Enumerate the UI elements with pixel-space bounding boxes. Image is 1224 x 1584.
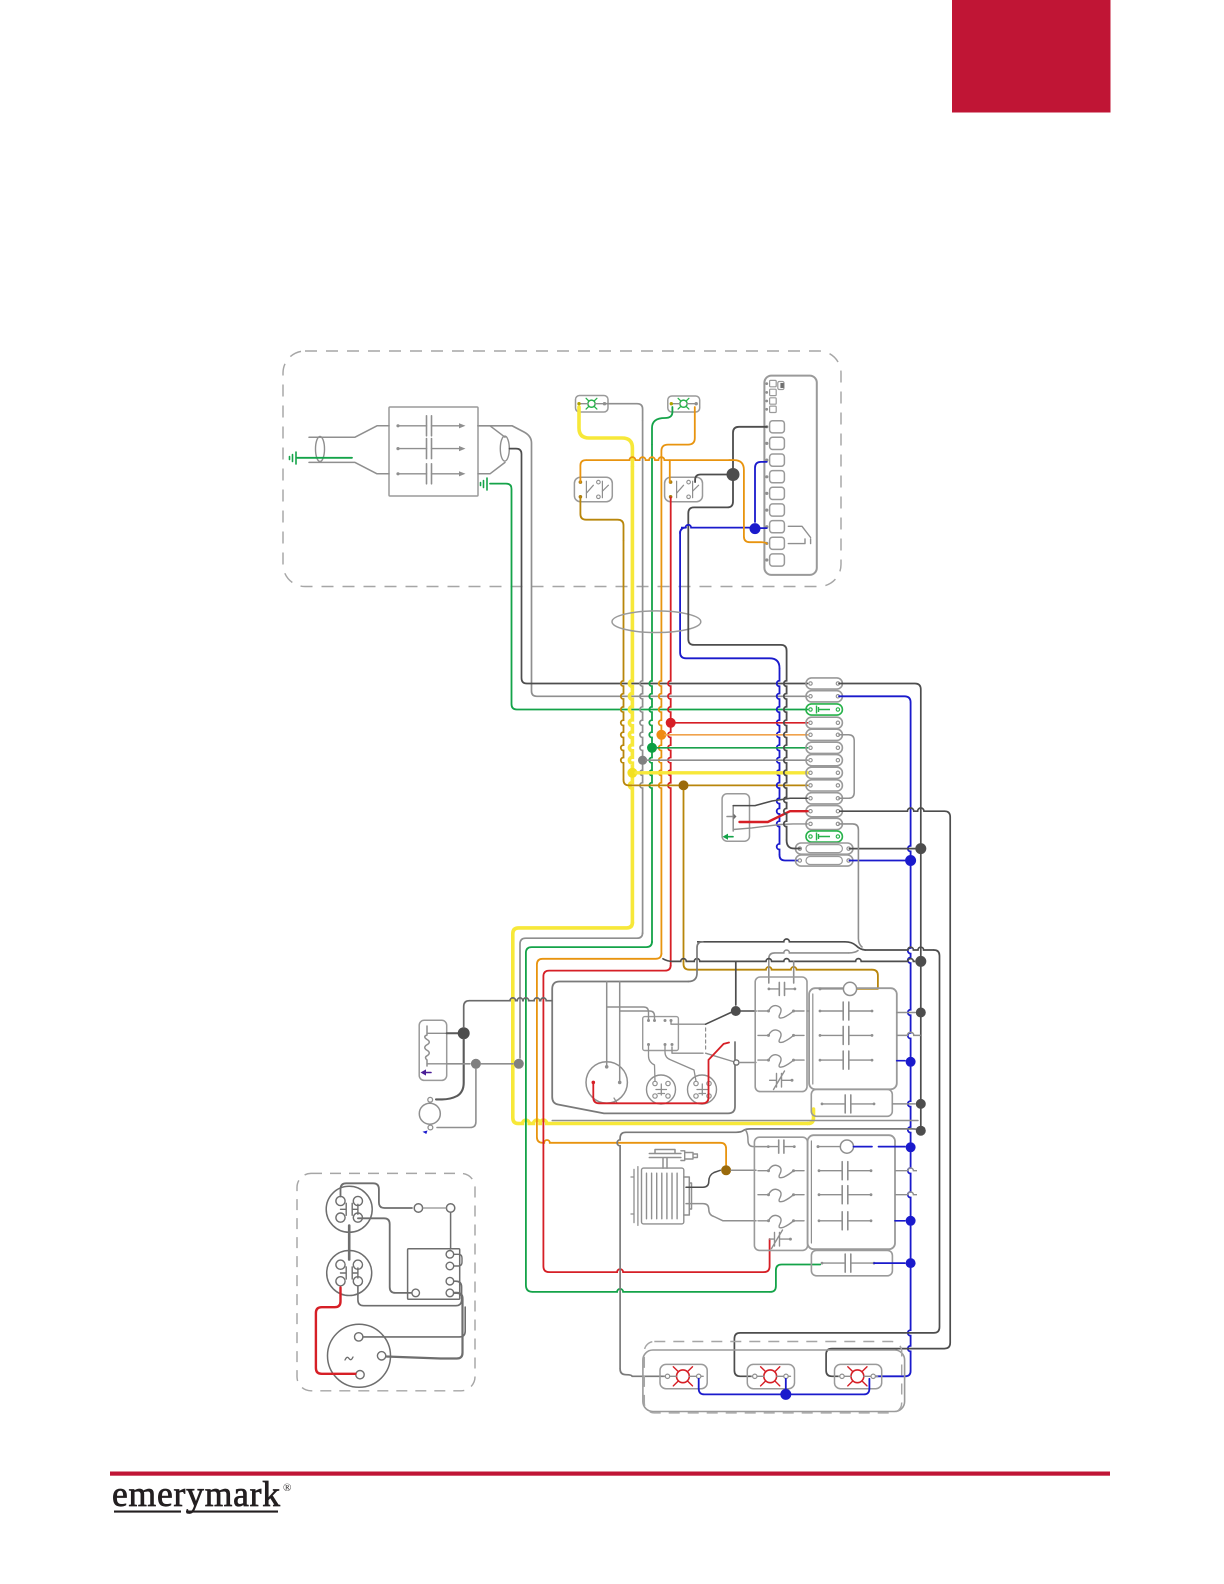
contact lower	[706, 1053, 733, 1061]
wire R1 to junction B	[447, 1032, 458, 1034]
ammeter M1	[419, 1103, 440, 1124]
regulator box B1	[408, 1249, 460, 1299]
wire horn to pod12 (gray)	[733, 824, 807, 830]
CB1 cap row2	[820, 1034, 843, 1036]
motor flywheel	[631, 1167, 638, 1226]
motor carb	[649, 1150, 681, 1169]
FB2 fuse 3	[758, 1220, 769, 1222]
wire contact2 to fuse3	[739, 1062, 756, 1064]
fuse panel fuse slots	[770, 421, 785, 433]
wire R1 lower to junction C	[447, 1063, 470, 1065]
horn switch S1	[722, 794, 749, 842]
rail B (cap riser)	[769, 953, 775, 983]
top cap drop FB2	[746, 1130, 769, 1147]
ground G1	[290, 452, 297, 464]
wire orange to pod5	[665, 734, 808, 736]
filter box F1	[389, 407, 478, 496]
CB1 cap row1	[820, 1010, 843, 1012]
wire horn to pod10 (gray)	[733, 798, 807, 805]
wire red to pod4	[675, 722, 808, 724]
wire B1 t4 to generator	[386, 1293, 463, 1359]
motor end cap	[684, 1177, 692, 1215]
red harness wire engine1	[593, 1043, 729, 1104]
wire pod2 to blue trunk (blue V1)	[839, 696, 911, 702]
ammeter blue tick	[423, 1131, 428, 1135]
engine2 left wire to lamp1	[617, 1138, 620, 1369]
orange rail relay K1 to panel slot8	[580, 460, 586, 482]
wire CB2 row3 blue ext	[895, 1220, 905, 1222]
wire relayK3 to gauge G2	[665, 1045, 696, 1082]
CB1 cap row3	[820, 1059, 843, 1061]
wire blue junction to slot7	[760, 527, 767, 529]
wire motor dot to FB2 fuse1	[731, 1169, 756, 1171]
fuse box FB1	[755, 977, 807, 1092]
lamp group lamp 1	[660, 1364, 707, 1388]
ignition relay K3	[643, 1017, 679, 1051]
footer crimson rule	[110, 1472, 1110, 1476]
wire junction C to D	[481, 1063, 513, 1065]
red long wire	[543, 965, 670, 1272]
wire lamp L1 gray lead / bundle gray	[605, 404, 643, 420]
junction dot XB1/V2	[916, 1099, 926, 1109]
B1 terminal t5	[412, 1289, 420, 1297]
wire relayK3 pin2	[620, 1011, 655, 1020]
FB2 fuse 1	[758, 1170, 769, 1172]
wire muffler-mid to pod1 (dark gray)	[510, 449, 808, 684]
XB2 capacitor	[822, 1262, 845, 1264]
wire dist B	[619, 982, 621, 1081]
B1 terminal t4	[446, 1289, 454, 1297]
CB2 inner edge	[810, 1141, 812, 1243]
coil box CB2	[808, 1135, 895, 1249]
engine1 lower wire	[552, 1120, 918, 1122]
wire relayK3 pin1	[607, 1007, 649, 1020]
red generator wire	[316, 1288, 356, 1374]
wire yellow to pod8	[636, 771, 808, 774]
junction dot CB2 row3 blue	[906, 1216, 916, 1226]
wire pod5-pod10 bracket	[839, 735, 854, 799]
B1 terminal t2	[446, 1262, 454, 1270]
R1 purple arrow	[424, 1072, 431, 1074]
wire P1 top loop	[341, 1183, 413, 1208]
wire XB1 to V2	[892, 1103, 915, 1105]
ground G2	[481, 478, 488, 490]
wire CB2 row2 ext	[895, 1192, 917, 1195]
filter pipe right bottom	[478, 462, 505, 473]
junction dot CB2 blue	[906, 1142, 916, 1152]
rail C (relay contact feed)	[735, 961, 737, 1005]
distributor D1	[586, 1062, 627, 1103]
dashed enclosure (column group)	[297, 1173, 475, 1390]
wire dark trunk rail (V3)	[697, 939, 845, 942]
wire lamp L1 yellow lead / bundle yellow	[579, 407, 632, 466]
wire junction A down to wide pod A	[688, 481, 786, 651]
orange long wire	[537, 953, 662, 1142]
filter capacitor C1	[396, 416, 465, 436]
header crimson block	[952, 0, 1111, 113]
wire pod11 to gray trunk (V4)	[839, 808, 944, 811]
wire pod12 to rail	[839, 824, 862, 947]
junction dot gray	[638, 756, 647, 765]
wire junction B to ammeter	[436, 1039, 464, 1099]
wire relay K2 to junction A	[695, 475, 727, 483]
junction dot rail C / V2	[915, 956, 926, 967]
dashed enclosure (lamp group)	[644, 1342, 901, 1413]
wire relay K2 orange stub	[669, 460, 671, 482]
wire junction B up to engine1	[464, 1001, 470, 1028]
generator GEN	[328, 1324, 391, 1387]
bundle blue wire	[680, 532, 779, 669]
motor fins	[647, 1173, 678, 1219]
junction dot contact	[731, 1006, 741, 1016]
wire blue junction to bundle	[681, 525, 750, 528]
indicator lamp L2	[668, 396, 700, 412]
contact upper	[706, 1012, 732, 1024]
lamp group lamp 2	[747, 1364, 794, 1388]
wire relayK3 pin6 to contact2	[672, 1047, 703, 1053]
engine1 box outline	[552, 982, 735, 1114]
junction dot XB2 blue	[906, 1258, 916, 1268]
motor upper lead	[686, 1170, 720, 1187]
gauge G1	[647, 1075, 676, 1104]
FB1 fuse 1	[758, 1010, 769, 1012]
wire generator top pin loop	[363, 1307, 465, 1337]
filter capacitor C3	[396, 464, 465, 484]
wire P2 to B1 t3	[358, 1281, 462, 1306]
junction dot wide-pod-A/V2	[915, 843, 926, 854]
wire lamp L2 orange lead / bundle orange	[661, 407, 694, 462]
FB2 top capacitor	[768, 1146, 778, 1148]
ignition switch link	[423, 1207, 446, 1209]
indicator lamp L1	[576, 396, 609, 413]
cap box XB2	[811, 1250, 892, 1275]
CB1 inner edge	[812, 994, 814, 1084]
XB1 capacitor	[822, 1103, 845, 1105]
horn switch green arrow	[726, 836, 733, 838]
wire relayK3 to gauge G1	[649, 1045, 656, 1082]
relay K2	[665, 477, 703, 502]
wire green to pod6	[656, 747, 808, 749]
filter ellipse right	[500, 436, 509, 461]
junction dot A (dark)	[727, 468, 740, 481]
fuse box FB2	[754, 1137, 807, 1250]
FB1 condenser	[770, 1071, 792, 1090]
junction dot C2	[514, 1059, 524, 1069]
wire relay K1 brown lead / bundle brown	[580, 497, 623, 540]
wire relay K2 red lead / bundle red	[668, 497, 671, 719]
filter pipe left bottom	[309, 462, 389, 473]
motor lower lead	[686, 1204, 756, 1221]
ignition switch contact a	[414, 1204, 422, 1212]
motor body	[642, 1168, 684, 1224]
CB2 cap row2	[819, 1194, 842, 1196]
emerymark logo underlines	[114, 1511, 181, 1513]
junction dot wide-pod-B/blue	[905, 855, 916, 866]
blue lamp stub	[785, 1379, 787, 1392]
junction dot blue panel	[750, 523, 761, 534]
wire gray to pod7	[646, 759, 808, 761]
engine2 top edge wire	[620, 1132, 626, 1138]
FB1 fuse 3	[758, 1059, 769, 1061]
wire panel slot1 (dark) via junction	[733, 427, 767, 468]
junction dot lamp blue	[780, 1389, 791, 1400]
junction dot orange	[656, 730, 666, 740]
contact lower terminal	[734, 1060, 739, 1065]
ignition switch contact b	[446, 1204, 454, 1212]
wire pod1 to gray trunk (V2)	[839, 684, 921, 1131]
filter ellipse left	[316, 437, 325, 462]
wire contact b down	[450, 1213, 452, 1250]
wire CB2 circle blue ext	[854, 1146, 906, 1148]
wire junction C down to ammeter	[437, 1069, 476, 1128]
antenna lead wire (green)	[297, 457, 352, 459]
connector pod strip	[806, 678, 842, 689]
B1 t1-t2 link	[454, 1254, 462, 1266]
brown long wire	[684, 791, 690, 970]
wire lamp L2 green lead / bundle green	[652, 407, 672, 444]
engine1 top edge to rail jog	[688, 942, 703, 982]
harness ellipse	[612, 611, 701, 633]
wire wide pod A to trunk	[850, 848, 918, 850]
wire muffler-top to pod2 (gray)	[478, 426, 808, 697]
svg-text:®: ®	[283, 1482, 291, 1494]
B1 terminal t1	[446, 1251, 454, 1259]
CB2 cap row3	[819, 1220, 842, 1222]
wire P1 to B1 t5	[358, 1218, 412, 1293]
wire P1-P2 link	[348, 1226, 351, 1260]
dashed enclosure (front harness)	[283, 351, 841, 587]
B1 terminal t3	[446, 1277, 454, 1285]
wire row2 ext	[897, 1032, 921, 1035]
cap right riser	[793, 961, 795, 983]
lamp group outer box	[643, 1350, 905, 1412]
FB1 fuse 2	[758, 1034, 769, 1036]
junction dot C1	[471, 1059, 481, 1069]
filter pipe right top	[478, 426, 505, 437]
gray long wire	[520, 933, 643, 1058]
wire FB1 row1 to V2	[807, 1011, 915, 1013]
junction dot motor/orange	[721, 1165, 731, 1175]
junction dot engine2/V2	[916, 1126, 926, 1136]
contact link dashes	[705, 1028, 707, 1049]
wire row3 blue ext	[897, 1060, 905, 1062]
filter capacitor C2	[396, 439, 465, 459]
junction dot row3 blue	[906, 1057, 916, 1067]
wire horn to pod11 (red)	[740, 811, 808, 822]
fuse panel small terminals	[770, 380, 777, 386]
junction dot yellow	[627, 768, 637, 778]
CB1 lamp circle	[843, 982, 856, 995]
wide connector pods	[796, 843, 853, 854]
CB2 cap row1	[819, 1170, 842, 1172]
column connector P1	[326, 1186, 372, 1232]
fuse panel switch hook	[788, 526, 810, 543]
junction dot brown	[679, 780, 689, 790]
yellow long wire	[513, 923, 633, 1124]
green long wire	[526, 942, 652, 1292]
junction dot row1/V2	[916, 1008, 926, 1018]
wire ground G2 to pod3 (green)	[490, 484, 808, 710]
blue lamp bus	[699, 1379, 870, 1395]
FB2 condenser	[770, 1230, 791, 1249]
wire wide pod B to blue trunk (blue)	[850, 860, 908, 862]
lamp group lamp 3	[835, 1364, 882, 1388]
ballast resistor R1	[419, 1020, 447, 1080]
CB2 lamp circle	[840, 1140, 853, 1153]
wire CB2 row1 ext	[895, 1168, 917, 1171]
gauge G2	[688, 1075, 717, 1104]
coil box CB1	[809, 988, 897, 1089]
cap box XB1	[811, 1089, 892, 1116]
wire XB2 blue ext	[874, 1262, 905, 1264]
fuse panel body	[764, 376, 816, 575]
FB2 fuse 2	[758, 1194, 769, 1196]
fuse panel key glyph	[778, 382, 784, 390]
column connector P2	[327, 1251, 372, 1296]
wire panel slot3 blue	[755, 462, 767, 522]
junction dot B	[458, 1027, 470, 1039]
junction dot red	[666, 718, 676, 728]
svg-text:emerymark: emerymark	[112, 1474, 281, 1514]
FB1 top capacitor	[769, 988, 779, 990]
relay K1	[574, 477, 612, 502]
wire dist A	[606, 982, 608, 1066]
filter pipe left top	[309, 426, 389, 437]
wire contact to fuse1	[740, 1010, 756, 1012]
wire relayK3 pin4 to contact	[671, 1020, 706, 1024]
junction dot green	[647, 743, 657, 753]
